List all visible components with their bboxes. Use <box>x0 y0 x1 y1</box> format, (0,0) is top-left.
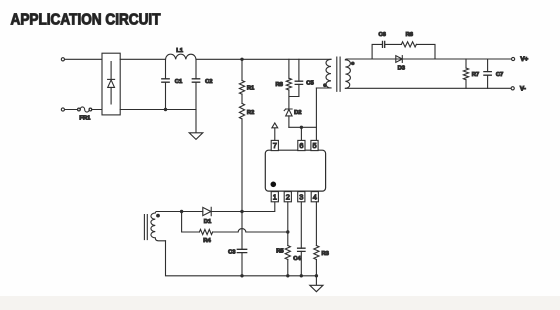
wire secondary bottom <box>345 87 511 89</box>
resistor R3 <box>314 202 330 276</box>
wire aux top <box>157 211 182 213</box>
svg-text:D3: D3 <box>398 65 406 71</box>
resistor R1 <box>239 59 255 94</box>
svg-text:C2: C2 <box>205 79 212 85</box>
svg-text:2: 2 <box>286 192 290 201</box>
pin 6 <box>298 140 305 150</box>
transformer core <box>337 57 340 91</box>
wire secondary top <box>345 58 511 61</box>
wire R1-R2 <box>241 94 243 103</box>
wire primary to pin5 <box>315 88 317 140</box>
diode D2 <box>284 109 301 127</box>
input terminal top <box>61 58 64 61</box>
resistor R8 <box>275 59 291 90</box>
svg-text:R8: R8 <box>275 82 283 88</box>
svg-text:5: 5 <box>312 141 316 150</box>
junction R1-top <box>240 58 243 61</box>
capacitor C7 <box>484 59 503 88</box>
resistor R6 <box>401 32 416 47</box>
svg-text:C3: C3 <box>228 249 236 255</box>
wire R2 to VCC node <box>241 119 243 212</box>
svg-text:R2: R2 <box>247 110 254 116</box>
svg-text:V+: V+ <box>520 56 528 63</box>
svg-text:R6: R6 <box>406 32 414 38</box>
wire D1 to pin1 <box>211 202 275 212</box>
primary phase dot <box>323 83 327 87</box>
inductor L1 <box>166 48 197 59</box>
resistor R4 <box>199 229 212 243</box>
pin 5 <box>311 140 318 150</box>
wire drain link <box>289 126 317 128</box>
input terminal bottom <box>61 108 64 111</box>
svg-text:7: 7 <box>273 141 277 150</box>
bridge rectifier <box>102 53 120 115</box>
wire input live <box>65 58 102 60</box>
svg-text:R1: R1 <box>247 86 255 92</box>
svg-text:C1: C1 <box>175 79 183 85</box>
capacitor C2 <box>192 59 212 133</box>
svg-text:R3: R3 <box>321 251 329 257</box>
junction aux node <box>180 210 183 213</box>
pin 1 <box>271 192 278 202</box>
svg-text:C4: C4 <box>293 256 301 262</box>
junction C1-bottom <box>164 108 167 111</box>
wire top rail <box>120 58 331 60</box>
wire pin2 down <box>287 202 289 246</box>
resistor R2 <box>239 103 254 119</box>
secondary phase dot <box>351 62 355 66</box>
IC pin1 marker <box>271 182 277 188</box>
terminal V+ <box>511 56 528 63</box>
pin 7 stub arrow <box>272 123 278 140</box>
capacitor C5 <box>295 59 314 96</box>
junction pin6 <box>300 126 303 129</box>
svg-text:1: 1 <box>273 192 277 201</box>
wire snubber branch <box>372 44 435 59</box>
aux phase dot <box>156 214 160 218</box>
transformer secondary winding <box>345 60 350 89</box>
capacitor C4 <box>293 202 305 276</box>
capacitor C1 <box>162 59 183 109</box>
svg-text:R7: R7 <box>472 72 479 78</box>
resistor R7 <box>463 59 479 88</box>
svg-text:D2: D2 <box>294 110 301 116</box>
junction R3-bottom <box>315 274 318 277</box>
wire aux to D1 <box>182 211 203 213</box>
pin 2 <box>284 192 291 202</box>
svg-text:FR1: FR1 <box>79 116 91 122</box>
capacitor C6 <box>378 32 386 47</box>
ground (IC) <box>310 276 323 292</box>
svg-text:C6: C6 <box>378 32 386 38</box>
svg-text:R4: R4 <box>203 238 211 244</box>
diode D1 <box>203 207 212 225</box>
terminal V- <box>511 86 526 93</box>
junction R4-pin2 <box>286 230 289 233</box>
svg-text:D1: D1 <box>204 219 212 225</box>
bottom band <box>0 296 560 310</box>
pin 3 <box>298 192 305 202</box>
svg-text:4: 4 <box>313 192 317 201</box>
svg-text:R5: R5 <box>276 249 284 255</box>
aux winding <box>151 212 166 241</box>
IC U1 body <box>265 150 325 191</box>
svg-text:C5: C5 <box>306 80 314 86</box>
wire R4 to pin2 <box>213 229 288 232</box>
fusible resistor FR1 <box>78 107 92 122</box>
ground (input filter) <box>189 133 203 140</box>
wire input bottom rail <box>120 109 196 111</box>
aux winding core <box>144 215 147 240</box>
wire aux to R4 <box>182 212 200 233</box>
wire input neutral <box>65 109 102 111</box>
svg-text:V-: V- <box>520 86 526 93</box>
title APPLICATION CIRCUIT <box>11 12 161 29</box>
junction VCC node <box>240 210 243 213</box>
svg-text:C7: C7 <box>496 72 503 78</box>
svg-text:L1: L1 <box>176 48 184 54</box>
wire bottom rail <box>166 241 317 276</box>
wire clamp join <box>289 90 299 109</box>
wire pin6 up <box>300 127 302 140</box>
junction C4-bottom <box>300 274 303 277</box>
junction C3-bottom <box>240 274 243 277</box>
resistor R5 <box>276 246 290 276</box>
junction R5-bottom <box>286 274 289 277</box>
pin 4 <box>311 192 318 202</box>
svg-text:6: 6 <box>299 141 303 150</box>
diode D3 <box>396 56 406 72</box>
capacitor C3 <box>228 212 247 276</box>
svg-text:APPLICATION CIRCUIT: APPLICATION CIRCUIT <box>11 12 161 29</box>
svg-text:3: 3 <box>299 192 303 201</box>
pin 7 <box>271 140 278 150</box>
transformer primary winding <box>316 59 331 88</box>
